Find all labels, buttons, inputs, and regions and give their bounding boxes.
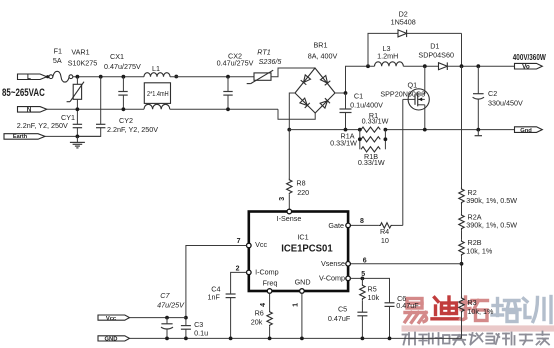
svg-text:1N5408: 1N5408 <box>391 17 416 26</box>
resistor R2B <box>459 238 493 256</box>
node C2 top <box>476 64 480 68</box>
junction after L tip <box>46 75 49 78</box>
svg-text:C5: C5 <box>338 305 347 314</box>
svg-text:2*1.4mH: 2*1.4mH <box>147 91 169 98</box>
svg-text:390k, 1%, 0.5W: 390k, 1%, 0.5W <box>466 220 517 229</box>
svg-text:R8: R8 <box>296 178 305 187</box>
svg-text:2.2nF, Y2, 250V: 2.2nF, Y2, 250V <box>107 125 158 134</box>
svg-text:10k, 1%: 10k, 1% <box>466 246 493 255</box>
capacitor C1 <box>340 91 384 129</box>
svg-text:S236/5: S236/5 <box>259 57 283 66</box>
varistor VAR1 <box>67 48 98 110</box>
resistor R6 <box>251 293 272 338</box>
terminal Vcc <box>98 315 130 322</box>
pin 3 <box>287 209 292 214</box>
svg-text:N: N <box>27 107 32 114</box>
resistor chain vertical wire from top rail <box>461 66 463 187</box>
wire pin1 GND <box>301 293 303 338</box>
node R6 gnd <box>268 337 272 341</box>
svg-text:VAR1: VAR1 <box>71 48 89 57</box>
svg-text:2.2nF, Y2, 250V: 2.2nF, Y2, 250V <box>17 121 68 130</box>
transistor Q1 <box>380 66 429 129</box>
pin 1 <box>300 289 305 294</box>
svg-text:IC1: IC1 <box>297 232 308 241</box>
wm char tuo <box>461 297 488 321</box>
svg-text:20k: 20k <box>251 318 263 327</box>
node VAR1/L <box>76 75 80 79</box>
pin 7 <box>247 243 252 248</box>
node C5 gnd <box>361 337 365 341</box>
svg-text:0.1u/400V: 0.1u/400V <box>350 101 383 110</box>
wire L1 to CX2 (top) <box>170 76 254 78</box>
svg-text:I-Comp: I-Comp <box>255 268 279 277</box>
pin 2 <box>247 270 252 275</box>
node Q1 drain <box>423 64 427 68</box>
choke L1 <box>144 64 171 109</box>
svg-text:GND: GND <box>295 277 311 286</box>
node D1 cathode / R2 top <box>460 64 464 68</box>
bridge BR1 <box>295 40 337 113</box>
resistor R4 <box>350 218 403 245</box>
resistor R1A (parallel, middle) <box>330 130 387 150</box>
svg-text:390k, 1%, 0.5W: 390k, 1%, 0.5W <box>466 196 517 205</box>
node C1 bottom <box>344 128 348 132</box>
svg-text:C1: C1 <box>354 91 363 100</box>
terminal Earth <box>4 134 45 141</box>
node R1 right <box>384 128 388 132</box>
wire pin7 Vcc <box>186 246 247 326</box>
svg-text:10k, 1%: 10k, 1% <box>467 307 494 316</box>
node Vsense <box>460 262 464 266</box>
wire pin2 I-Comp <box>231 272 247 294</box>
resistor R8 <box>287 130 310 210</box>
svg-text:47u/25V: 47u/25V <box>157 301 185 310</box>
svg-text:400V/360W: 400V/360W <box>513 53 546 62</box>
svg-text:C7: C7 <box>160 291 170 300</box>
wm char xun <box>524 297 552 323</box>
svg-text:R6: R6 <box>255 309 264 318</box>
pin 8 <box>346 223 351 228</box>
svg-text:0.33/1W: 0.33/1W <box>330 138 357 147</box>
svg-text:10k: 10k <box>368 293 380 302</box>
wm char yi <box>405 299 427 323</box>
capacitor C4 <box>208 285 236 339</box>
node R1 left <box>358 128 362 132</box>
resistor R3 <box>459 297 494 316</box>
svg-text:Vcc: Vcc <box>106 316 117 322</box>
node C4 gnd <box>229 337 233 341</box>
svg-text:Vo: Vo <box>522 64 530 71</box>
capacitor CX1 <box>104 52 141 109</box>
wm char pei <box>492 299 520 322</box>
diode D1 <box>418 42 514 70</box>
capacitor C2 <box>473 66 523 129</box>
node C3 gnd <box>184 337 188 341</box>
pin 5 <box>346 276 351 281</box>
terminal GND <box>98 336 130 343</box>
wire negative rail <box>289 129 361 131</box>
node CX1/L <box>122 75 126 79</box>
node C2 bottom + tick <box>476 128 480 132</box>
svg-text:I-Sense: I-Sense <box>277 214 302 223</box>
svg-text:6: 6 <box>363 258 367 265</box>
resistor R1 (on rail) <box>361 111 389 132</box>
svg-text:Vsense: Vsense <box>321 259 345 268</box>
svg-text:Gate: Gate <box>328 221 344 230</box>
svg-text:7: 7 <box>237 238 241 245</box>
svg-text:GND: GND <box>105 336 118 342</box>
svg-text:BR1: BR1 <box>314 40 328 49</box>
svg-text:1.2mH: 1.2mH <box>377 52 398 61</box>
wm char di <box>432 297 458 319</box>
wire Vsense to pin 6 <box>350 263 461 265</box>
node bridge minus / I-sense <box>287 128 291 132</box>
svg-text:0.47u/275V: 0.47u/275V <box>104 62 141 71</box>
svg-text:2: 2 <box>236 265 240 272</box>
svg-text:Vcc: Vcc <box>255 240 267 249</box>
svg-text:10: 10 <box>381 236 389 245</box>
terminal Gnd <box>515 127 543 134</box>
resistor R2A <box>459 212 517 230</box>
svg-text:D1: D1 <box>430 42 439 51</box>
svg-text:1nF: 1nF <box>208 292 221 301</box>
capacitor CY1 <box>17 109 82 136</box>
svg-text:CX1: CX1 <box>110 52 124 61</box>
wire Earth rail <box>45 135 101 137</box>
svg-text:85~265VAC: 85~265VAC <box>2 87 45 99</box>
svg-text:1: 1 <box>293 303 300 307</box>
wm small text row <box>403 332 550 345</box>
ground <box>70 136 85 148</box>
svg-text:ICE1PCS01: ICE1PCS01 <box>281 243 333 255</box>
wire pin5 V-Comp <box>350 278 389 302</box>
inductor L3 <box>375 44 404 66</box>
node C7 gnd <box>165 337 169 341</box>
svg-text:0.47u/275V: 0.47u/275V <box>217 58 254 67</box>
pin 4 <box>267 289 272 294</box>
node CX1/N <box>122 107 126 111</box>
svg-text:3: 3 <box>279 197 286 201</box>
terminal Vo <box>513 53 546 71</box>
svg-text:Freq: Freq <box>263 278 278 287</box>
op-amp/controller IC1 ICE1PCS01 <box>236 197 367 307</box>
svg-text:SDP04S60: SDP04S60 <box>418 50 454 59</box>
capacitor CY2 <box>77 77 158 137</box>
wire bridge minus to rail <box>289 93 295 130</box>
node R5 top <box>361 277 365 281</box>
wire bridge plus to C1 node and top rail <box>335 66 375 93</box>
capacitor C6 <box>385 294 420 339</box>
svg-text:L1: L1 <box>152 64 160 73</box>
wire bottom gnd rail <box>130 337 462 339</box>
fuse F1 <box>49 47 73 83</box>
svg-text:R4: R4 <box>380 227 389 236</box>
node C1 top <box>344 91 348 95</box>
node D2 left <box>366 64 370 68</box>
svg-text:R3: R3 <box>467 298 476 307</box>
wire R3 bottom to gnd rail <box>461 313 463 338</box>
wire N rail <box>47 108 144 110</box>
svg-text:330u/450V: 330u/450V <box>488 99 523 108</box>
resistor R1B (parallel, bottom) <box>358 147 385 167</box>
svg-text:8: 8 <box>360 218 364 225</box>
svg-text:0.1u: 0.1u <box>194 329 208 338</box>
svg-text:L: L <box>27 74 31 81</box>
node VAR1/N <box>76 107 80 111</box>
wire L3 to D1 <box>403 65 438 67</box>
node Earth junction <box>76 135 80 139</box>
svg-text:Gnd: Gnd <box>520 128 532 134</box>
svg-text:Q1: Q1 <box>408 81 418 90</box>
svg-text:SPP20N60C3: SPP20N60C3 <box>380 89 425 98</box>
svg-text:220: 220 <box>297 188 309 197</box>
phasing dot after L1 <box>174 75 178 79</box>
svg-text:C2: C2 <box>488 89 497 98</box>
resistor R2 <box>459 188 517 206</box>
diode D2 branch <box>368 9 462 66</box>
terminal N <box>18 107 47 114</box>
svg-text:RT1: RT1 <box>257 47 270 56</box>
svg-text:0.47uF: 0.47uF <box>396 301 419 310</box>
wire fuse to VAR1 node <box>73 76 144 78</box>
wire Vcc flag to C3 node <box>130 317 186 319</box>
wire RT1 to bridge top <box>271 68 315 77</box>
resistor R5 <box>360 278 380 312</box>
svg-text:0.47uF: 0.47uF <box>328 314 351 323</box>
capacitor C7 electrolytic <box>157 291 185 338</box>
svg-text:V-Comp: V-Comp <box>319 274 345 283</box>
terminal L <box>18 74 47 81</box>
node Vcc/C3 <box>184 316 188 320</box>
node pin1 gnd <box>300 337 304 341</box>
thermistor RT1 <box>247 47 283 83</box>
capacitor C5 <box>328 305 367 339</box>
svg-text:5A: 5A <box>53 56 62 65</box>
capacitor C3 <box>181 320 208 338</box>
svg-text:0.33/1W: 0.33/1W <box>362 117 389 126</box>
svg-text:4: 4 <box>260 303 267 307</box>
pin 6 <box>346 262 351 267</box>
wire gate riser <box>402 99 404 225</box>
svg-text:8A, 400V: 8A, 400V <box>308 52 338 61</box>
wire L1 to CX2 (bottom) <box>170 108 278 110</box>
node CY2/L <box>99 75 103 79</box>
svg-text:F1: F1 <box>54 47 62 56</box>
svg-text:CY2: CY2 <box>119 116 133 125</box>
wire N jog to bridge bottom <box>278 109 315 119</box>
svg-text:S10K275: S10K275 <box>68 58 98 67</box>
node Q1 source <box>423 128 427 132</box>
node C6 gnd <box>388 337 392 341</box>
wm pink bar <box>402 325 554 331</box>
wire L-flag to fuse <box>47 76 49 78</box>
capacitor CX2 <box>217 52 254 112</box>
svg-text:Earth: Earth <box>13 134 28 140</box>
svg-text:0.33/1W: 0.33/1W <box>358 158 385 167</box>
